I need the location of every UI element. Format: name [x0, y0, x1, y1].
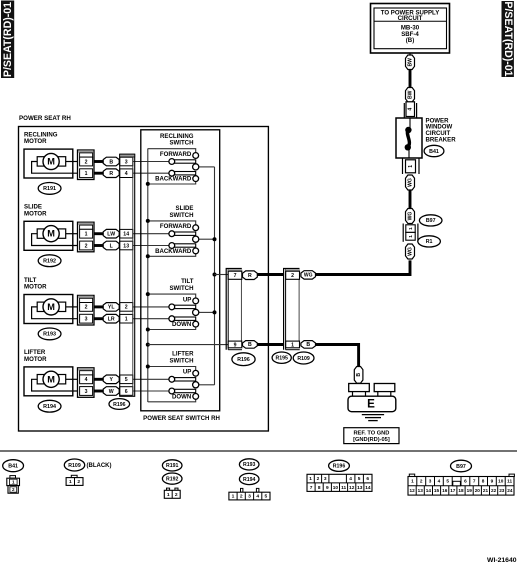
- wire from pin 4 to switch: [133, 172, 169, 174]
- svg-text:BACKWARD: BACKWARD: [155, 176, 192, 183]
- wire B to ground: [316, 345, 359, 367]
- svg-text:1: 1: [309, 476, 312, 482]
- svg-text:R: R: [109, 171, 113, 177]
- svg-text:MOTOR: MOTOR: [24, 356, 47, 363]
- svg-text:2: 2: [420, 479, 423, 484]
- svg-text:[GND(RD)-05]: [GND(RD)-05]: [353, 437, 390, 443]
- svg-text:4: 4: [85, 377, 88, 383]
- wire from pin 2 to switch: [133, 306, 169, 308]
- svg-text:WG: WG: [304, 273, 313, 279]
- svg-text:6: 6: [125, 389, 128, 395]
- svg-text:P/SEAT(RD)-01: P/SEAT(RD)-01: [2, 2, 14, 77]
- svg-text:1: 1: [12, 480, 15, 485]
- wire label BW upper: [406, 55, 415, 70]
- svg-text:P/SEAT(RD)-01: P/SEAT(RD)-01: [502, 1, 514, 76]
- ground terminal E: [348, 383, 396, 412]
- svg-text:17: 17: [450, 488, 456, 493]
- motor connector R194: [78, 368, 95, 398]
- tilt switch contact UP: [193, 298, 199, 304]
- svg-text:10: 10: [333, 485, 339, 491]
- svg-text:R195: R195: [275, 355, 288, 361]
- svg-text:R196: R196: [333, 464, 346, 470]
- R196 pin 1: [120, 314, 133, 323]
- svg-text:6: 6: [464, 479, 467, 484]
- svg-text:UP: UP: [183, 369, 191, 376]
- power window circuit breaker box: [396, 118, 422, 158]
- connector pin 4 of B41: [404, 102, 416, 118]
- connector oval R195: [272, 352, 291, 363]
- reclining switch contact FORWARD: [193, 153, 199, 159]
- connector R196 block (pins 7,9): [226, 269, 242, 350]
- svg-text:POWER SEAT SWITCH RH: POWER SEAT SWITCH RH: [143, 415, 220, 422]
- connector face B97: [408, 460, 514, 495]
- slide switch wiper A: [169, 231, 196, 237]
- wire from pin 14 to switch: [133, 233, 169, 235]
- svg-text:2: 2: [317, 476, 320, 482]
- slide switch common contact: [193, 236, 199, 242]
- connector oval R196 (block): [232, 353, 255, 366]
- svg-text:B41: B41: [8, 464, 18, 470]
- R196 pin 9: [228, 341, 242, 348]
- svg-text:7: 7: [234, 273, 237, 279]
- R109 pin 2: [286, 271, 300, 279]
- svg-text:21: 21: [483, 488, 489, 493]
- svg-text:BREAKER: BREAKER: [426, 136, 457, 143]
- svg-text:B97: B97: [426, 218, 436, 224]
- svg-text:R194: R194: [43, 404, 56, 410]
- reclining switch wiper B: [169, 170, 196, 176]
- wire segment WG: [409, 190, 412, 209]
- svg-text:SWITCH: SWITCH: [169, 212, 193, 219]
- svg-text:3: 3: [324, 476, 327, 482]
- svg-text:2: 2: [85, 243, 88, 249]
- svg-text:WI-21640: WI-21640: [487, 557, 517, 564]
- svg-text:LW: LW: [107, 231, 115, 237]
- wire from pin 1 to switch: [133, 318, 169, 320]
- svg-text:4: 4: [408, 108, 414, 111]
- svg-text:SWITCH: SWITCH: [169, 285, 193, 292]
- svg-text:MOTOR: MOTOR: [24, 138, 47, 145]
- svg-text:18: 18: [458, 488, 464, 493]
- tilt motor M3: [24, 295, 78, 324]
- svg-text:12: 12: [349, 485, 355, 491]
- svg-text:Y: Y: [109, 377, 113, 383]
- svg-text:R: R: [248, 273, 252, 279]
- wire R from pin 7: [243, 271, 258, 280]
- svg-text:3: 3: [85, 316, 88, 322]
- power seat switch RH box: [141, 130, 220, 411]
- connector oval R196 (column): [109, 399, 130, 410]
- svg-text:YL: YL: [108, 305, 115, 311]
- wire R segment to R109: [257, 273, 283, 276]
- svg-text:1: 1: [411, 479, 414, 484]
- motor connector R191: [78, 150, 95, 180]
- tilt switch contact loop to ground bus: [148, 294, 196, 298]
- lifter switch common contact: [193, 382, 199, 388]
- svg-text:20: 20: [475, 488, 481, 493]
- svg-text:R109: R109: [297, 356, 310, 362]
- svg-text:WG: WG: [408, 178, 414, 187]
- tilt switch wiper B: [169, 316, 196, 322]
- lifter switch label: [169, 351, 194, 365]
- svg-text:R191: R191: [166, 463, 179, 469]
- svg-text:REF. TO GND: REF. TO GND: [353, 431, 389, 437]
- right page tab P/SEAT(RD)-01: [502, 1, 515, 77]
- svg-text:MOTOR: MOTOR: [24, 210, 47, 217]
- svg-text:R1: R1: [426, 239, 433, 245]
- R109 pin 1: [286, 341, 300, 348]
- svg-text:CIRCUIT: CIRCUIT: [398, 15, 423, 22]
- svg-text:16: 16: [442, 488, 448, 493]
- slide motor M2: [24, 221, 78, 250]
- svg-text:(B): (B): [406, 37, 414, 44]
- svg-text:8: 8: [318, 485, 321, 491]
- svg-text:2: 2: [12, 487, 15, 492]
- svg-text:B: B: [248, 342, 252, 348]
- R196 pin 5: [120, 375, 133, 384]
- svg-text:BACKWARD: BACKWARD: [155, 248, 192, 255]
- connector oval B41: [424, 145, 444, 156]
- junction dots on ground bus: [146, 182, 150, 369]
- lifter switch contact DOWN: [193, 394, 199, 400]
- reclining switch wiper A: [169, 159, 196, 165]
- wire from supply box: [409, 53, 411, 56]
- svg-text:2: 2: [85, 305, 88, 311]
- label POWER WINDOW CIRCUIT BREAKER: [426, 117, 457, 143]
- connector oval R192: [38, 255, 61, 267]
- svg-text:R109: R109: [68, 463, 81, 469]
- svg-text:WG: WG: [408, 247, 414, 256]
- svg-text:R193: R193: [243, 462, 256, 468]
- svg-text:2: 2: [77, 479, 80, 485]
- wire R (row B): [94, 169, 119, 178]
- separator rule: [0, 450, 517, 452]
- wire LR (row B): [94, 314, 119, 323]
- ref to gnd box: [344, 428, 399, 444]
- power supply circuit box MB-30 SBF-4: [371, 4, 450, 54]
- slide switch contact BACKWARD: [193, 248, 199, 254]
- svg-text:5: 5: [125, 377, 128, 383]
- svg-text:B97: B97: [456, 464, 466, 470]
- svg-text:4: 4: [438, 479, 441, 484]
- svg-text:R192: R192: [43, 259, 56, 265]
- connector pin 1 of B41: [403, 158, 420, 174]
- wire from pin 6 to switch: [133, 390, 169, 392]
- power seat RH box: [19, 127, 269, 432]
- svg-text:M: M: [47, 157, 55, 167]
- svg-text:7: 7: [310, 485, 313, 491]
- tilt switch label: [169, 278, 193, 292]
- tilt switch common feed line: [199, 311, 215, 313]
- wire from pin 3 to switch: [133, 161, 169, 163]
- slide switch wiper B: [169, 243, 196, 249]
- connector face R196: [307, 460, 372, 491]
- wire B from pin 1: [301, 341, 316, 349]
- svg-text:15: 15: [434, 488, 440, 493]
- svg-text:DOWN: DOWN: [172, 394, 191, 401]
- svg-text:3: 3: [248, 494, 251, 500]
- svg-text:B41: B41: [429, 149, 439, 155]
- svg-text:24: 24: [507, 488, 513, 493]
- svg-text:FORWARD: FORWARD: [160, 151, 192, 158]
- connector face R191/R192: [162, 460, 182, 499]
- power feed wire (switch commons to pin 7): [214, 167, 216, 385]
- svg-text:9: 9: [234, 342, 237, 348]
- svg-text:2: 2: [175, 492, 178, 498]
- connector oval R193: [38, 328, 61, 340]
- svg-text:7: 7: [473, 479, 476, 484]
- svg-text:1: 1: [125, 316, 128, 322]
- connector oval R1: [418, 236, 441, 247]
- reclining switch common feed line: [199, 166, 215, 168]
- svg-text:1: 1: [85, 231, 88, 237]
- svg-text:14: 14: [426, 488, 432, 493]
- wire WG from pin 2: [301, 271, 316, 279]
- R196 pin 4: [120, 169, 133, 178]
- svg-text:1: 1: [69, 479, 72, 485]
- connector face R193/R194: [229, 459, 270, 500]
- reclining switch common contact: [193, 164, 199, 170]
- wire B from pin 9: [243, 341, 258, 349]
- slide switch common feed line: [199, 238, 215, 240]
- connector R109 block (pins 2,1): [284, 269, 300, 350]
- svg-text:13: 13: [418, 488, 424, 493]
- svg-text:5: 5: [265, 494, 268, 500]
- lifter motor M4: [24, 367, 78, 396]
- slide switch contact loop to ground bus: [148, 221, 196, 225]
- svg-text:4: 4: [256, 494, 259, 500]
- svg-text:DOWN: DOWN: [172, 321, 191, 328]
- svg-text:13: 13: [123, 243, 129, 249]
- connector face R109 (BLACK): [64, 459, 111, 485]
- svg-text:R196: R196: [113, 402, 126, 408]
- svg-text:FORWARD: FORWARD: [160, 223, 192, 230]
- svg-text:3: 3: [85, 389, 88, 395]
- svg-text:1: 1: [408, 165, 414, 168]
- svg-text:UP: UP: [183, 296, 191, 303]
- R196 pin 14: [120, 229, 133, 238]
- R196 pin 7: [228, 271, 242, 279]
- svg-text:2: 2: [125, 305, 128, 311]
- reclining motor label: [24, 131, 58, 145]
- R196 pin 13: [120, 241, 133, 250]
- slide switch contact FORWARD: [193, 225, 199, 231]
- svg-text:12: 12: [409, 488, 415, 493]
- wire B segment to R109: [257, 343, 283, 346]
- svg-text:1: 1: [232, 494, 235, 500]
- svg-text:14: 14: [123, 231, 129, 237]
- wire YL (row A): [94, 303, 119, 312]
- R196 pin 6: [120, 387, 133, 396]
- svg-text:LR: LR: [108, 316, 115, 322]
- wire ground bus to R196 pin 9: [148, 344, 228, 346]
- svg-text:11: 11: [507, 479, 512, 484]
- lifter switch contact UP: [193, 370, 199, 376]
- svg-text:MOTOR: MOTOR: [24, 284, 47, 291]
- svg-text:2: 2: [291, 273, 294, 279]
- svg-text:POWER SEAT RH: POWER SEAT RH: [19, 115, 71, 122]
- svg-text:R196: R196: [237, 357, 250, 363]
- svg-text:B: B: [356, 373, 362, 377]
- ground bus wire (switch commons): [147, 149, 149, 403]
- motor connector R193: [78, 295, 95, 325]
- wire label WG middle: [406, 209, 415, 224]
- reclining motor M1: [24, 149, 78, 178]
- wire Y (row A): [94, 375, 119, 384]
- svg-text:3: 3: [429, 479, 432, 484]
- svg-text:M: M: [47, 302, 55, 312]
- svg-text:SWITCH: SWITCH: [169, 358, 193, 365]
- wire W (row B): [94, 387, 119, 396]
- svg-text:E: E: [367, 397, 375, 410]
- svg-text:5: 5: [446, 479, 449, 484]
- svg-text:R191: R191: [43, 186, 56, 192]
- svg-text:1: 1: [85, 171, 88, 177]
- svg-text:(BLACK): (BLACK): [87, 463, 112, 469]
- svg-text:2: 2: [240, 494, 243, 500]
- wire B (row A): [94, 157, 119, 166]
- R196 pin 2: [120, 303, 133, 312]
- svg-text:BW: BW: [408, 58, 414, 67]
- svg-text:M: M: [47, 229, 55, 239]
- svg-text:8: 8: [482, 479, 485, 484]
- connector oval B97: [419, 215, 442, 226]
- svg-text:9: 9: [491, 479, 494, 484]
- svg-text:23: 23: [499, 488, 505, 493]
- svg-text:6: 6: [366, 476, 369, 482]
- reclining switch contact BACKWARD: [193, 176, 199, 182]
- wire from pin 5 to switch: [133, 378, 169, 380]
- junction dots on feed wire: [213, 237, 217, 314]
- svg-text:19: 19: [467, 488, 473, 493]
- svg-text:1: 1: [167, 492, 170, 498]
- svg-text:13: 13: [357, 485, 363, 491]
- svg-text:1: 1: [291, 342, 294, 348]
- left page tab P/SEAT(RD)-01: [1, 1, 14, 79]
- svg-text:14: 14: [365, 485, 371, 491]
- wire label WG lower: [406, 244, 415, 259]
- reclining switch label: [160, 133, 194, 147]
- connector oval R109: [293, 352, 314, 364]
- reclining switch contact loop to ground bus: [148, 149, 196, 153]
- tilt motor label: [24, 277, 47, 291]
- connector face B41: [3, 460, 24, 494]
- wire from pin 13 to switch: [133, 245, 169, 247]
- wire segment BW: [409, 70, 412, 88]
- svg-text:B: B: [109, 159, 113, 165]
- svg-text:B: B: [306, 342, 310, 348]
- svg-text:R194: R194: [243, 477, 256, 483]
- svg-text:W: W: [109, 389, 114, 395]
- svg-text:R193: R193: [43, 332, 56, 338]
- lifter motor label: [24, 349, 47, 363]
- wire label B vertical: [354, 367, 363, 384]
- svg-text:4: 4: [349, 476, 352, 482]
- lifter switch wiper B: [169, 388, 196, 394]
- svg-text:M: M: [47, 374, 55, 384]
- connector oval R191: [38, 183, 61, 195]
- svg-text:R192: R192: [166, 476, 179, 482]
- wire label WG upper: [406, 175, 415, 190]
- lifter switch common feed line: [199, 384, 215, 386]
- svg-text:5: 5: [358, 476, 361, 482]
- wire feed to R196 pin 7: [215, 274, 229, 276]
- tilt switch contact DOWN: [193, 321, 199, 327]
- slide switch label: [169, 205, 193, 219]
- tilt switch wiper A: [169, 304, 196, 310]
- wire L (row B): [94, 241, 119, 250]
- breaker symbol: [405, 118, 412, 158]
- motor connector R192: [78, 222, 95, 252]
- wire label BW lower: [406, 88, 415, 103]
- lifter switch contact loop to ground bus: [148, 367, 196, 371]
- svg-text:3: 3: [125, 159, 128, 165]
- inline connector pins 1|1 (B97 to R1): [403, 224, 418, 242]
- svg-text:10: 10: [498, 479, 504, 484]
- tilt switch common contact: [193, 309, 199, 315]
- connector R196 column: [120, 154, 135, 396]
- lifter switch wiper A: [169, 376, 196, 382]
- svg-text:22: 22: [491, 488, 497, 493]
- svg-text:4: 4: [125, 171, 128, 177]
- svg-text:SWITCH: SWITCH: [169, 140, 193, 147]
- svg-text:1: 1: [408, 227, 414, 230]
- svg-text:WG: WG: [408, 212, 414, 221]
- connector oval R194: [38, 400, 61, 412]
- svg-text:11: 11: [341, 485, 346, 491]
- svg-text:2: 2: [85, 159, 88, 165]
- ground hatching: [362, 415, 384, 421]
- svg-text:1: 1: [408, 235, 414, 238]
- slide motor label: [24, 204, 47, 218]
- wire WG down then left to R109 pin 2: [316, 260, 411, 274]
- svg-text:BW: BW: [408, 90, 414, 99]
- R196 pin 3: [120, 157, 133, 166]
- wire LW (row A): [94, 229, 119, 238]
- svg-text:9: 9: [326, 485, 329, 491]
